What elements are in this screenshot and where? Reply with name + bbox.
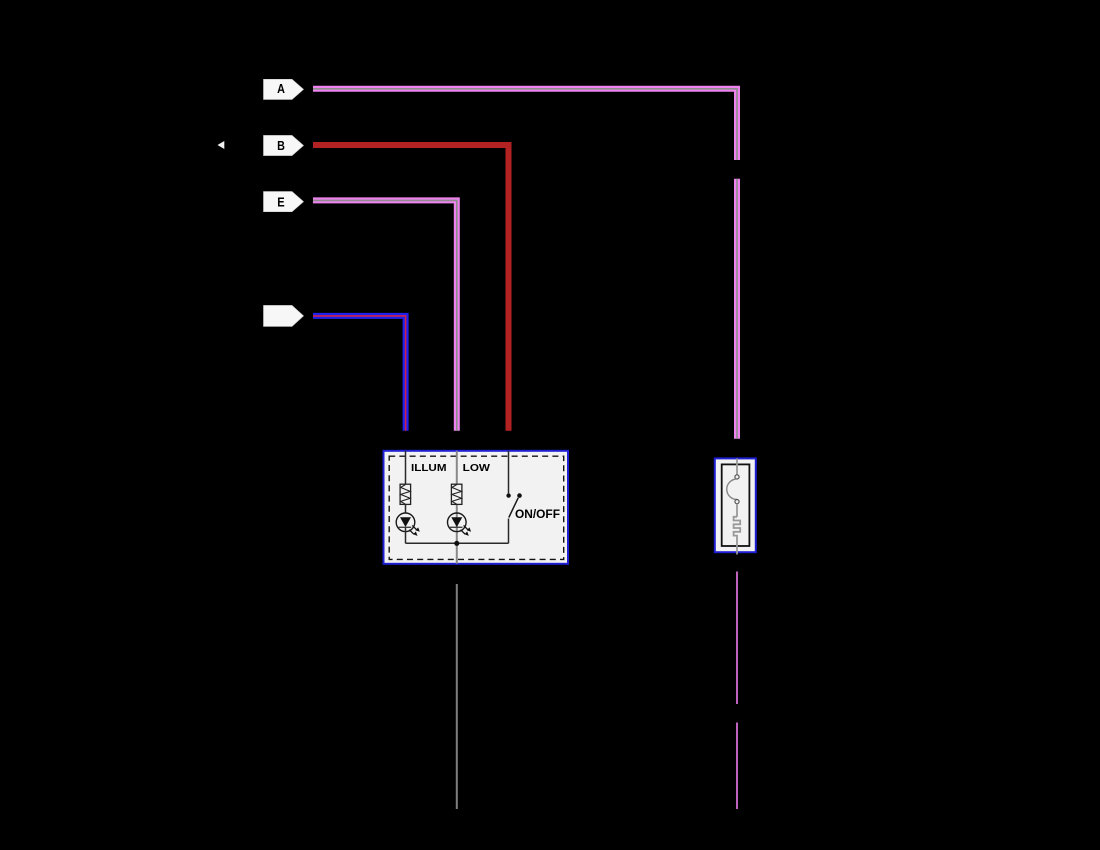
connector E [264, 192, 304, 212]
wire E violet/gray [313, 200, 457, 430]
wire switch to rail [508, 519, 510, 544]
wire ILLUM branch upper [405, 451, 407, 484]
wire bottom rail [406, 542, 509, 544]
wire LOW branch main gray through-line [456, 451, 458, 564]
wire B dark red [313, 145, 509, 431]
left arrow marker [218, 141, 225, 149]
resistor R1 [400, 484, 411, 504]
LED D1 [396, 513, 420, 536]
component box U1 (switch/illumination unit) [384, 451, 569, 564]
svg-text:LOW: LOW [463, 462, 490, 474]
wire blue/red [313, 316, 406, 431]
junction dot [454, 541, 459, 546]
LED D2 [448, 513, 472, 536]
resistor R2 [451, 484, 462, 504]
wire switch branch upper [508, 451, 510, 494]
svg-text:A: A [277, 81, 285, 96]
wire gray below box [456, 584, 458, 809]
svg-text:ILLUM: ILLUM [411, 462, 447, 474]
fuse element [727, 458, 740, 554]
svg-text:E: E [277, 194, 285, 209]
connector blank [264, 305, 304, 326]
wire A violet/gray lower segment [734, 179, 740, 439]
fuse F1 box [715, 458, 756, 552]
wire LED1 to rail [405, 527, 407, 543]
wire violet below fuse lower [736, 723, 738, 810]
svg-text:ON/OFF: ON/OFF [515, 509, 560, 521]
connector B [264, 135, 304, 155]
svg-text:B: B [277, 138, 285, 153]
wire R1 to LED1 [405, 504, 407, 513]
wire A violet/gray upper segment [313, 89, 737, 160]
connector A [264, 79, 304, 99]
switch S1 [506, 493, 521, 517]
wire violet below fuse upper [736, 572, 738, 705]
